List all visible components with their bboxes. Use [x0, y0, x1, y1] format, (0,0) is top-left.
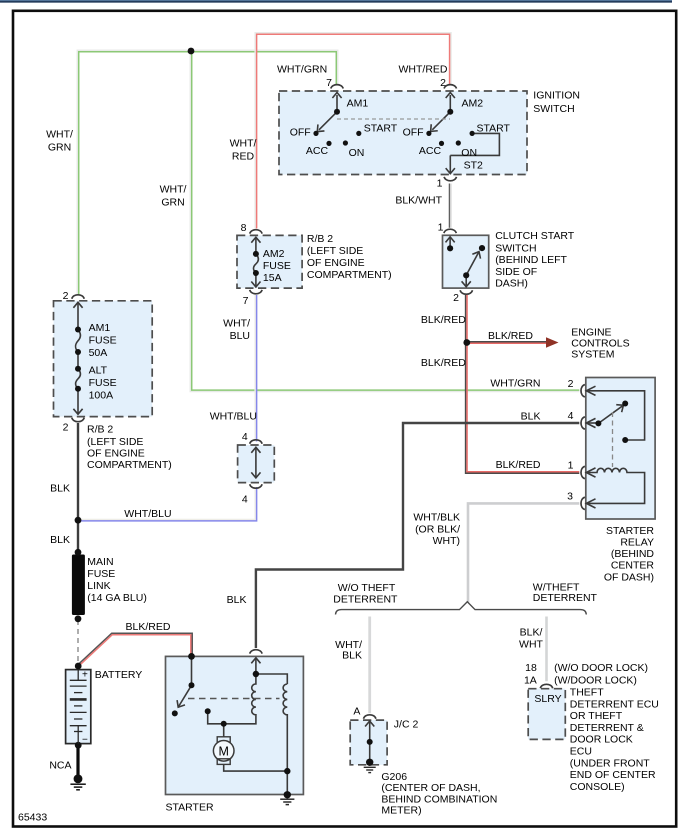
- svg-text:WHT/: WHT/: [46, 129, 73, 141]
- svg-text:FUSE: FUSE: [89, 335, 117, 347]
- svg-text:BLK: BLK: [521, 411, 541, 423]
- svg-text:7: 7: [243, 295, 249, 307]
- svg-text:ECU: ECU: [570, 746, 592, 758]
- svg-text:BLK: BLK: [50, 534, 70, 546]
- svg-text:AM2: AM2: [462, 97, 484, 109]
- svg-text:65433: 65433: [18, 812, 47, 824]
- svg-text:G206: G206: [381, 771, 407, 783]
- svg-text:(CENTER OF DASH,: (CENTER OF DASH,: [381, 782, 480, 794]
- svg-text:BLK/RED: BLK/RED: [488, 330, 533, 342]
- svg-text:FUSE: FUSE: [263, 260, 291, 272]
- svg-text:1: 1: [568, 460, 574, 472]
- svg-text:OFF: OFF: [403, 127, 424, 139]
- svg-text:(BEHIND LEFT: (BEHIND LEFT: [495, 254, 567, 266]
- svg-text:4: 4: [568, 410, 574, 422]
- svg-text:STARTER: STARTER: [606, 525, 654, 537]
- svg-text:STARTER: STARTER: [166, 801, 214, 813]
- svg-text:ACC: ACC: [306, 145, 329, 157]
- svg-text:DASH): DASH): [495, 277, 528, 289]
- svg-text:WHT/GRN: WHT/GRN: [277, 63, 327, 75]
- svg-text:1A: 1A: [524, 675, 537, 687]
- svg-text:BLK/RED: BLK/RED: [421, 357, 466, 369]
- svg-text:OF ENGINE: OF ENGINE: [307, 257, 365, 269]
- svg-text:AM1: AM1: [347, 97, 369, 109]
- svg-text:WHT: WHT: [519, 639, 543, 651]
- svg-text:+: +: [82, 670, 88, 681]
- svg-text:(W/DOOR LOCK): (W/DOOR LOCK): [554, 675, 637, 687]
- svg-text:RELAY: RELAY: [620, 537, 654, 549]
- svg-text:(LEFT SIDE: (LEFT SIDE: [307, 245, 363, 257]
- svg-text:DOOR LOCK: DOOR LOCK: [570, 734, 633, 746]
- svg-text:50A: 50A: [89, 347, 108, 359]
- svg-text:ACC: ACC: [419, 145, 442, 157]
- svg-text:2: 2: [568, 378, 574, 390]
- svg-text:OFF: OFF: [290, 127, 311, 139]
- svg-text:SYSTEM: SYSTEM: [571, 349, 614, 361]
- svg-text:MAIN: MAIN: [87, 556, 113, 568]
- svg-text:SWITCH: SWITCH: [533, 103, 574, 115]
- svg-text:CLUTCH START: CLUTCH START: [495, 230, 575, 242]
- svg-text:2: 2: [63, 421, 69, 433]
- svg-text:WHT/BLK: WHT/BLK: [413, 511, 460, 523]
- svg-text:COMPARTMENT): COMPARTMENT): [307, 269, 392, 281]
- svg-text:NCA: NCA: [49, 760, 71, 772]
- svg-text:7: 7: [326, 77, 332, 89]
- svg-text:ENGINE: ENGINE: [571, 326, 611, 338]
- svg-text:(W/O DOOR LOCK): (W/O DOOR LOCK): [554, 662, 648, 674]
- svg-text:(14 GA BLU): (14 GA BLU): [87, 592, 147, 604]
- svg-text:GRN: GRN: [161, 196, 184, 208]
- svg-text:WHT/: WHT/: [230, 138, 257, 150]
- svg-text:THEFT: THEFT: [570, 687, 604, 699]
- svg-text:LINK: LINK: [87, 580, 110, 592]
- svg-text:ON: ON: [461, 147, 477, 159]
- svg-text:W/O THEFT: W/O THEFT: [338, 582, 396, 594]
- svg-text:3: 3: [567, 490, 573, 502]
- svg-text:WHT/GRN: WHT/GRN: [490, 377, 540, 389]
- svg-text:BLK/RED: BLK/RED: [421, 314, 466, 326]
- svg-text:BATTERY: BATTERY: [95, 669, 142, 681]
- svg-text:START: START: [364, 123, 398, 135]
- svg-text:BLU: BLU: [230, 330, 250, 342]
- svg-text:1: 1: [438, 221, 444, 233]
- svg-text:FUSE: FUSE: [89, 377, 117, 389]
- svg-text:−: −: [82, 735, 88, 746]
- svg-text:ST2: ST2: [464, 159, 483, 171]
- svg-text:(LEFT SIDE: (LEFT SIDE: [87, 436, 143, 448]
- svg-text:WHT/: WHT/: [223, 317, 250, 329]
- svg-text:(UNDER FRONT: (UNDER FRONT: [570, 757, 650, 769]
- svg-text:GRN: GRN: [48, 142, 71, 154]
- svg-text:SLRY: SLRY: [534, 693, 561, 705]
- svg-text:BLK: BLK: [50, 483, 70, 495]
- svg-text:BLK/WHT: BLK/WHT: [395, 195, 442, 207]
- svg-text:2: 2: [63, 290, 69, 302]
- svg-text:WHT/RED: WHT/RED: [399, 63, 448, 75]
- svg-text:COMPARTMENT): COMPARTMENT): [87, 459, 172, 471]
- svg-text:DETERRENT: DETERRENT: [533, 592, 598, 604]
- svg-text:ALT: ALT: [89, 365, 108, 377]
- svg-text:SWITCH: SWITCH: [495, 243, 536, 255]
- svg-text:DETERRENT ECU: DETERRENT ECU: [570, 698, 659, 710]
- svg-text:(OR BLK/: (OR BLK/: [415, 524, 460, 536]
- svg-text:START: START: [477, 123, 511, 135]
- svg-text:4: 4: [242, 431, 248, 443]
- svg-text:4: 4: [242, 493, 248, 505]
- svg-text:A: A: [353, 706, 360, 718]
- svg-text:R/B 2: R/B 2: [87, 423, 113, 435]
- svg-text:OF DASH): OF DASH): [604, 571, 654, 583]
- svg-text:METER): METER): [381, 805, 421, 817]
- svg-text:BLK/RED: BLK/RED: [126, 621, 171, 633]
- svg-text:FUSE: FUSE: [87, 568, 115, 580]
- svg-text:OR THEFT: OR THEFT: [570, 710, 623, 722]
- svg-text:8: 8: [241, 222, 247, 234]
- svg-text:BLK/: BLK/: [520, 627, 543, 639]
- svg-text:R/B 2: R/B 2: [307, 233, 333, 245]
- svg-text:1: 1: [437, 178, 443, 190]
- svg-text:BLK/RED: BLK/RED: [496, 459, 541, 471]
- svg-text:DETERRENT: DETERRENT: [333, 594, 398, 606]
- svg-text:CENTER: CENTER: [611, 560, 655, 572]
- svg-text:2: 2: [440, 77, 446, 89]
- svg-text:BLK: BLK: [342, 650, 362, 662]
- svg-text:M: M: [218, 744, 228, 758]
- svg-text:(BEHIND: (BEHIND: [611, 548, 655, 560]
- svg-text:SIDE OF: SIDE OF: [495, 266, 537, 278]
- svg-text:BLK: BLK: [227, 594, 247, 606]
- svg-text:15A: 15A: [263, 272, 282, 284]
- svg-text:OF ENGINE: OF ENGINE: [87, 448, 145, 460]
- svg-text:WHT/BLU: WHT/BLU: [124, 508, 171, 520]
- svg-text:WHT): WHT): [433, 535, 460, 547]
- svg-text:IGNITION: IGNITION: [533, 90, 580, 102]
- svg-text:WHT/BLU: WHT/BLU: [210, 411, 257, 423]
- svg-text:100A: 100A: [89, 390, 114, 402]
- svg-text:CONSOLE): CONSOLE): [570, 781, 625, 793]
- svg-text:AM1: AM1: [89, 322, 111, 334]
- svg-text:ON: ON: [349, 147, 365, 159]
- svg-text:18: 18: [525, 662, 537, 674]
- svg-text:J/C 2: J/C 2: [394, 719, 419, 731]
- svg-text:RED: RED: [232, 150, 255, 162]
- svg-text:DETERRENT &: DETERRENT &: [570, 722, 644, 734]
- svg-text:WHT/: WHT/: [160, 183, 187, 195]
- svg-text:AM2: AM2: [263, 248, 285, 260]
- svg-text:END OF CENTER: END OF CENTER: [570, 769, 656, 781]
- svg-text:2: 2: [453, 292, 459, 304]
